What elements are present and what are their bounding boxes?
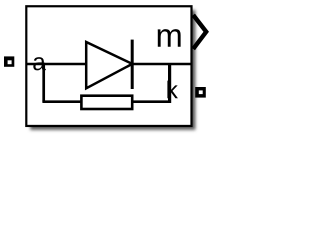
label m xyxy=(158,29,181,47)
resistor Rs (snubber) xyxy=(81,96,132,109)
wire: left vertical drop xyxy=(42,63,45,102)
wire: resistor to right vertical xyxy=(132,100,170,103)
diode cathode bar xyxy=(131,40,134,89)
port k (unconnected square port, right) xyxy=(195,87,206,98)
wire: cathode to right edge xyxy=(133,63,191,66)
block body (Diode block outline) xyxy=(26,6,191,126)
label a xyxy=(33,57,45,70)
diode D triangle xyxy=(86,42,132,88)
block drop shadow xyxy=(30,10,195,130)
port m (output chevron, top right) xyxy=(193,15,206,49)
wire: bottom horizontal to resistor xyxy=(42,100,81,103)
label k xyxy=(167,81,178,99)
wire: a to diode anode xyxy=(27,63,88,66)
wire: right vertical (to k) xyxy=(168,64,171,103)
port a (unconnected square port, left) xyxy=(4,56,14,66)
